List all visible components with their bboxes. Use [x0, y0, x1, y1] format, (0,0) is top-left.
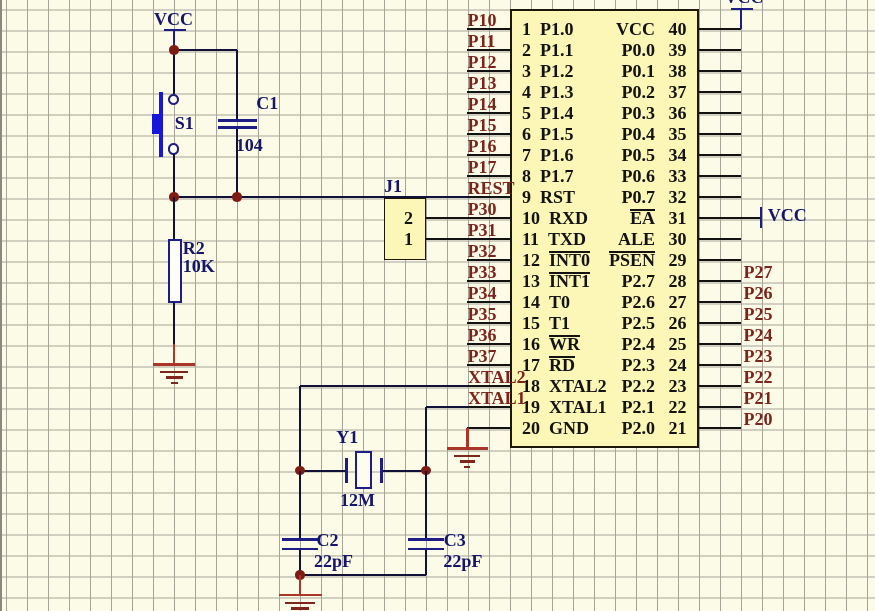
wire pin 4 stub	[467, 91, 511, 93]
IC pin 24 number	[669, 356, 687, 374]
switch S1 plunger	[152, 114, 162, 134]
wire pin 14 stub	[467, 301, 511, 303]
wire pin 24 stub	[699, 364, 741, 366]
resistor R2 body	[168, 239, 182, 303]
net label P34	[468, 284, 497, 302]
net label P35	[468, 305, 497, 323]
net label P37	[468, 347, 497, 365]
IC pin 12 number and name INT0	[522, 251, 590, 269]
IC pin 1 number and name P1.0	[522, 20, 574, 38]
wire pin 34 stub	[699, 154, 741, 156]
IC pin 25 name P2.4	[520, 335, 655, 353]
wire pin 29 stub	[699, 259, 741, 261]
IC pin 4 number and name P1.3	[522, 83, 574, 101]
IC pin 38 number	[669, 62, 687, 80]
IC pin 23 name P2.2	[520, 377, 655, 395]
wire C2 bottom to ground junction	[299, 550, 301, 575]
crystal Y1 left electrode bar	[345, 458, 348, 484]
wire pin 8 stub	[467, 175, 511, 177]
IC pin 26 number	[669, 314, 687, 332]
wire pin 36 stub	[699, 112, 741, 114]
IC pin 9 number and name RST	[522, 188, 575, 206]
IC pin 27 name P2.6	[520, 293, 655, 311]
ground symbol at pin 20	[447, 447, 488, 449]
pin 19 XTAL1 pin wire	[467, 406, 511, 408]
IC pin 31 name EA	[520, 209, 655, 227]
capacitor C2 designator	[317, 531, 339, 549]
wire junction down to R2	[173, 197, 175, 239]
net label P12	[468, 53, 497, 71]
wire down to C1 top plate	[236, 50, 238, 119]
IC pin 17 number and name RD	[522, 356, 575, 374]
wire VCC bar to junction	[173, 31, 175, 50]
crystal Y1 value 12M	[340, 491, 375, 509]
net label P10	[468, 11, 497, 29]
wire pin 27 stub	[699, 301, 741, 303]
capacitor C1 bottom plate	[218, 126, 257, 128]
IC pin 11 number and name TXD	[522, 230, 586, 248]
crystal Y1 body	[355, 451, 372, 489]
wire pin 12 stub	[467, 259, 511, 261]
node junction crystal right	[421, 466, 430, 475]
capacitor C2 top plate	[282, 538, 318, 541]
IC pin 26 name P2.5	[520, 314, 655, 332]
IC pin 22 name P2.1	[520, 398, 655, 416]
switch S1 actuator bar	[159, 92, 163, 157]
power VCC (top right) label, clipped at top	[725, 0, 764, 6]
wire J1 pin2 to IC RXD (P30 net)	[426, 217, 511, 219]
IC U1 8051 body	[510, 9, 699, 448]
wire pin 26 stub	[699, 322, 741, 324]
IC pin 29 name PSEN	[520, 251, 655, 269]
IC pin 19 number and name XTAL1	[522, 398, 607, 416]
wire pin 32 stub	[699, 196, 741, 198]
wire C1 bottom plate to RST wire	[236, 129, 238, 197]
wire pin 21 stub	[699, 427, 741, 429]
wire pin 17 stub	[467, 364, 511, 366]
net label P14	[468, 95, 497, 113]
wire XTAL2 net horizontal	[300, 385, 467, 387]
IC pin 29 number	[669, 251, 687, 269]
IC pin 22 number	[669, 398, 687, 416]
net label P36	[468, 326, 497, 344]
IC pin 35 name P0.4	[520, 125, 655, 143]
IC pin 39 name P0.0	[520, 41, 655, 59]
wire pin 40 to VCC riser	[740, 9, 742, 29]
IC pin 3 number and name P1.2	[522, 62, 574, 80]
IC pin 38 name P0.1	[520, 62, 655, 80]
capacitor C3 top plate	[408, 538, 444, 541]
IC pin 34 number	[669, 146, 687, 164]
switch S1 designator	[175, 114, 194, 132]
wire pin 16 stub	[467, 343, 511, 345]
IC pin 18 number and name XTAL2	[522, 377, 607, 395]
net label P24	[744, 326, 773, 344]
wire pin 2 stub	[467, 49, 511, 51]
wire pin 31 stub to VCC	[699, 217, 760, 219]
IC pin 28 name P2.7	[520, 272, 655, 290]
IC pin 33 number	[669, 167, 687, 185]
wire pin 6 stub	[467, 133, 511, 135]
capacitor C3 designator	[444, 531, 466, 549]
wire pin 1 stub	[467, 28, 511, 30]
wire crystal left lead	[300, 470, 346, 472]
IC pin 32 number	[669, 188, 687, 206]
net label P26	[744, 284, 773, 302]
IC pin 30 number	[669, 230, 687, 248]
IC pin 33 name P0.6	[520, 167, 655, 185]
IC pin 20 number and name GND	[522, 419, 589, 437]
wire pin 40 stub	[699, 28, 741, 30]
wire C3 bottom vertical	[425, 550, 427, 575]
IC pin 2 number and name P1.1	[522, 41, 574, 59]
node junction ground bottom	[295, 570, 304, 579]
IC pin 24 name P2.3	[520, 356, 655, 374]
wire pin 15 stub	[467, 322, 511, 324]
net label P20	[744, 410, 773, 428]
ground symbol under R2	[153, 363, 195, 365]
IC pin 40 name VCC	[520, 20, 655, 38]
ground symbol under R2 stem	[173, 344, 176, 365]
crystal Y1 right electrode bar	[380, 458, 383, 484]
net label P33	[468, 263, 497, 281]
IC pin 30 name ALE	[520, 230, 655, 248]
wire pin 22 stub	[699, 406, 741, 408]
IC pin 15 number and name T1	[522, 314, 570, 332]
wire bottom horizontal C2-C3	[300, 574, 426, 576]
wire: left image edge artifact	[0, 0, 2, 611]
wire pin 20 GND to ground	[467, 427, 511, 429]
wire pin 30 stub	[699, 238, 741, 240]
connector J1 box	[384, 198, 426, 260]
wire junction down to S1	[173, 50, 175, 94]
connector J1 designator	[384, 177, 402, 195]
IC pin 13 number and name INT1	[522, 272, 590, 290]
wire pin 33 stub	[699, 175, 741, 177]
wire crystal right down to C3	[425, 471, 427, 539]
capacitor C2 value 22pF	[314, 552, 353, 570]
net label P15	[468, 116, 497, 134]
net label XTAL2	[468, 368, 526, 386]
net label P25	[744, 305, 773, 323]
IC pin 31 number	[669, 209, 687, 227]
crystal Y1 designator	[336, 428, 358, 446]
net label P30	[468, 200, 497, 218]
IC pin 36 number	[669, 104, 687, 122]
ground (pin 20) stem	[466, 428, 469, 449]
wire pin 39 stub	[699, 49, 741, 51]
net label P13	[468, 74, 497, 92]
IC pin 21 number	[669, 419, 687, 437]
power VCC (EA pin 31) label	[768, 206, 807, 224]
wire pin 35 stub	[699, 133, 741, 135]
capacitor C1 value 104	[236, 136, 263, 154]
wire XTAL1 net horizontal	[426, 406, 467, 408]
IC pin 32 name P0.7	[520, 188, 655, 206]
connector J1 pin 2 number	[404, 209, 413, 227]
IC pin 36 name P0.3	[520, 104, 655, 122]
wire pin 7 stub	[467, 154, 511, 156]
node junction RST left	[169, 192, 178, 201]
net label P31	[468, 221, 497, 239]
wire pin 28 stub	[699, 280, 741, 282]
power VCC (top right) bar symbol	[731, 8, 753, 10]
IC pin 16 number and name WR	[522, 335, 580, 353]
power VCC (top left) bar symbol	[164, 29, 186, 31]
IC pin 5 number and name P1.4	[522, 104, 574, 122]
capacitor C2 bottom plate	[282, 548, 318, 551]
net label P11	[468, 32, 496, 50]
IC pin 37 name P0.2	[520, 83, 655, 101]
net label P32	[468, 242, 497, 260]
net label P17	[468, 158, 497, 176]
IC pin 14 number and name T0	[522, 293, 570, 311]
IC pin 23 number	[669, 377, 687, 395]
IC pin 7 number and name P1.6	[522, 146, 574, 164]
IC pin 27 number	[669, 293, 687, 311]
wire XTAL1 vertical down to crystal	[425, 407, 427, 471]
IC pin 28 number	[669, 272, 687, 290]
net label REST	[468, 179, 515, 197]
wire RST net (long horizontal to IC pin 9)	[174, 196, 467, 198]
pin 18 XTAL2 pin wire	[467, 385, 511, 387]
IC pin 6 number and name P1.5	[522, 125, 574, 143]
IC pin 25 number	[669, 335, 687, 353]
IC pin 21 name P2.0	[520, 419, 655, 437]
power VCC (EA pin 31) bar symbol	[760, 207, 763, 228]
pin 9 RST pin wire	[467, 196, 511, 198]
wire pin 25 stub	[699, 343, 741, 345]
ground symbol bottom	[279, 594, 322, 596]
wire pin 37 stub	[699, 91, 741, 93]
wire pin 13 stub	[467, 280, 511, 282]
net label P27	[744, 263, 773, 281]
power VCC (top left) label	[154, 10, 193, 28]
capacitor C3 bottom plate	[408, 548, 444, 551]
node junction RST at C1	[232, 192, 241, 201]
net label XTAL1	[468, 389, 526, 407]
net label P23	[744, 347, 773, 365]
node junction at VCC	[169, 45, 178, 54]
IC pin 39 number	[669, 41, 687, 59]
net label P22	[744, 368, 773, 386]
ground (bottom) stem	[299, 575, 302, 595]
wire pin 3 stub	[467, 70, 511, 72]
wire S1 bottom to RST junction	[173, 154, 175, 197]
wire XTAL2 vertical down to crystal	[299, 386, 301, 471]
wire pin 23 stub	[699, 385, 741, 387]
resistor R2 value 10K	[183, 257, 215, 275]
switch S1 top terminal circle	[168, 94, 179, 105]
wire pin 38 stub	[699, 70, 741, 72]
node junction crystal left	[295, 466, 304, 475]
IC pin 35 number	[669, 125, 687, 143]
net label P16	[468, 137, 497, 155]
wire crystal right lead	[383, 470, 426, 472]
wire R2 bottom to ground	[173, 303, 175, 344]
IC pin 40 number	[669, 20, 687, 38]
wire junction to C1 branch (horizontal)	[174, 49, 237, 51]
capacitor C1 top plate	[218, 119, 257, 121]
capacitor C3 value 22pF	[443, 552, 482, 570]
switch S1 bottom terminal circle	[168, 143, 179, 154]
IC pin 8 number and name P1.7	[522, 167, 574, 185]
wire crystal left down to C2	[299, 471, 301, 539]
resistor R2 designator	[183, 239, 205, 257]
IC pin 34 name P0.5	[520, 146, 655, 164]
wire J1 pin1 to IC TXD (P31 net)	[426, 238, 511, 240]
capacitor C1 designator	[256, 94, 278, 112]
net label P21	[744, 389, 773, 407]
IC pin 10 number and name RXD	[522, 209, 588, 227]
IC pin 37 number	[669, 83, 687, 101]
connector J1 pin 1 number	[404, 230, 413, 248]
wire pin 5 stub	[467, 112, 511, 114]
